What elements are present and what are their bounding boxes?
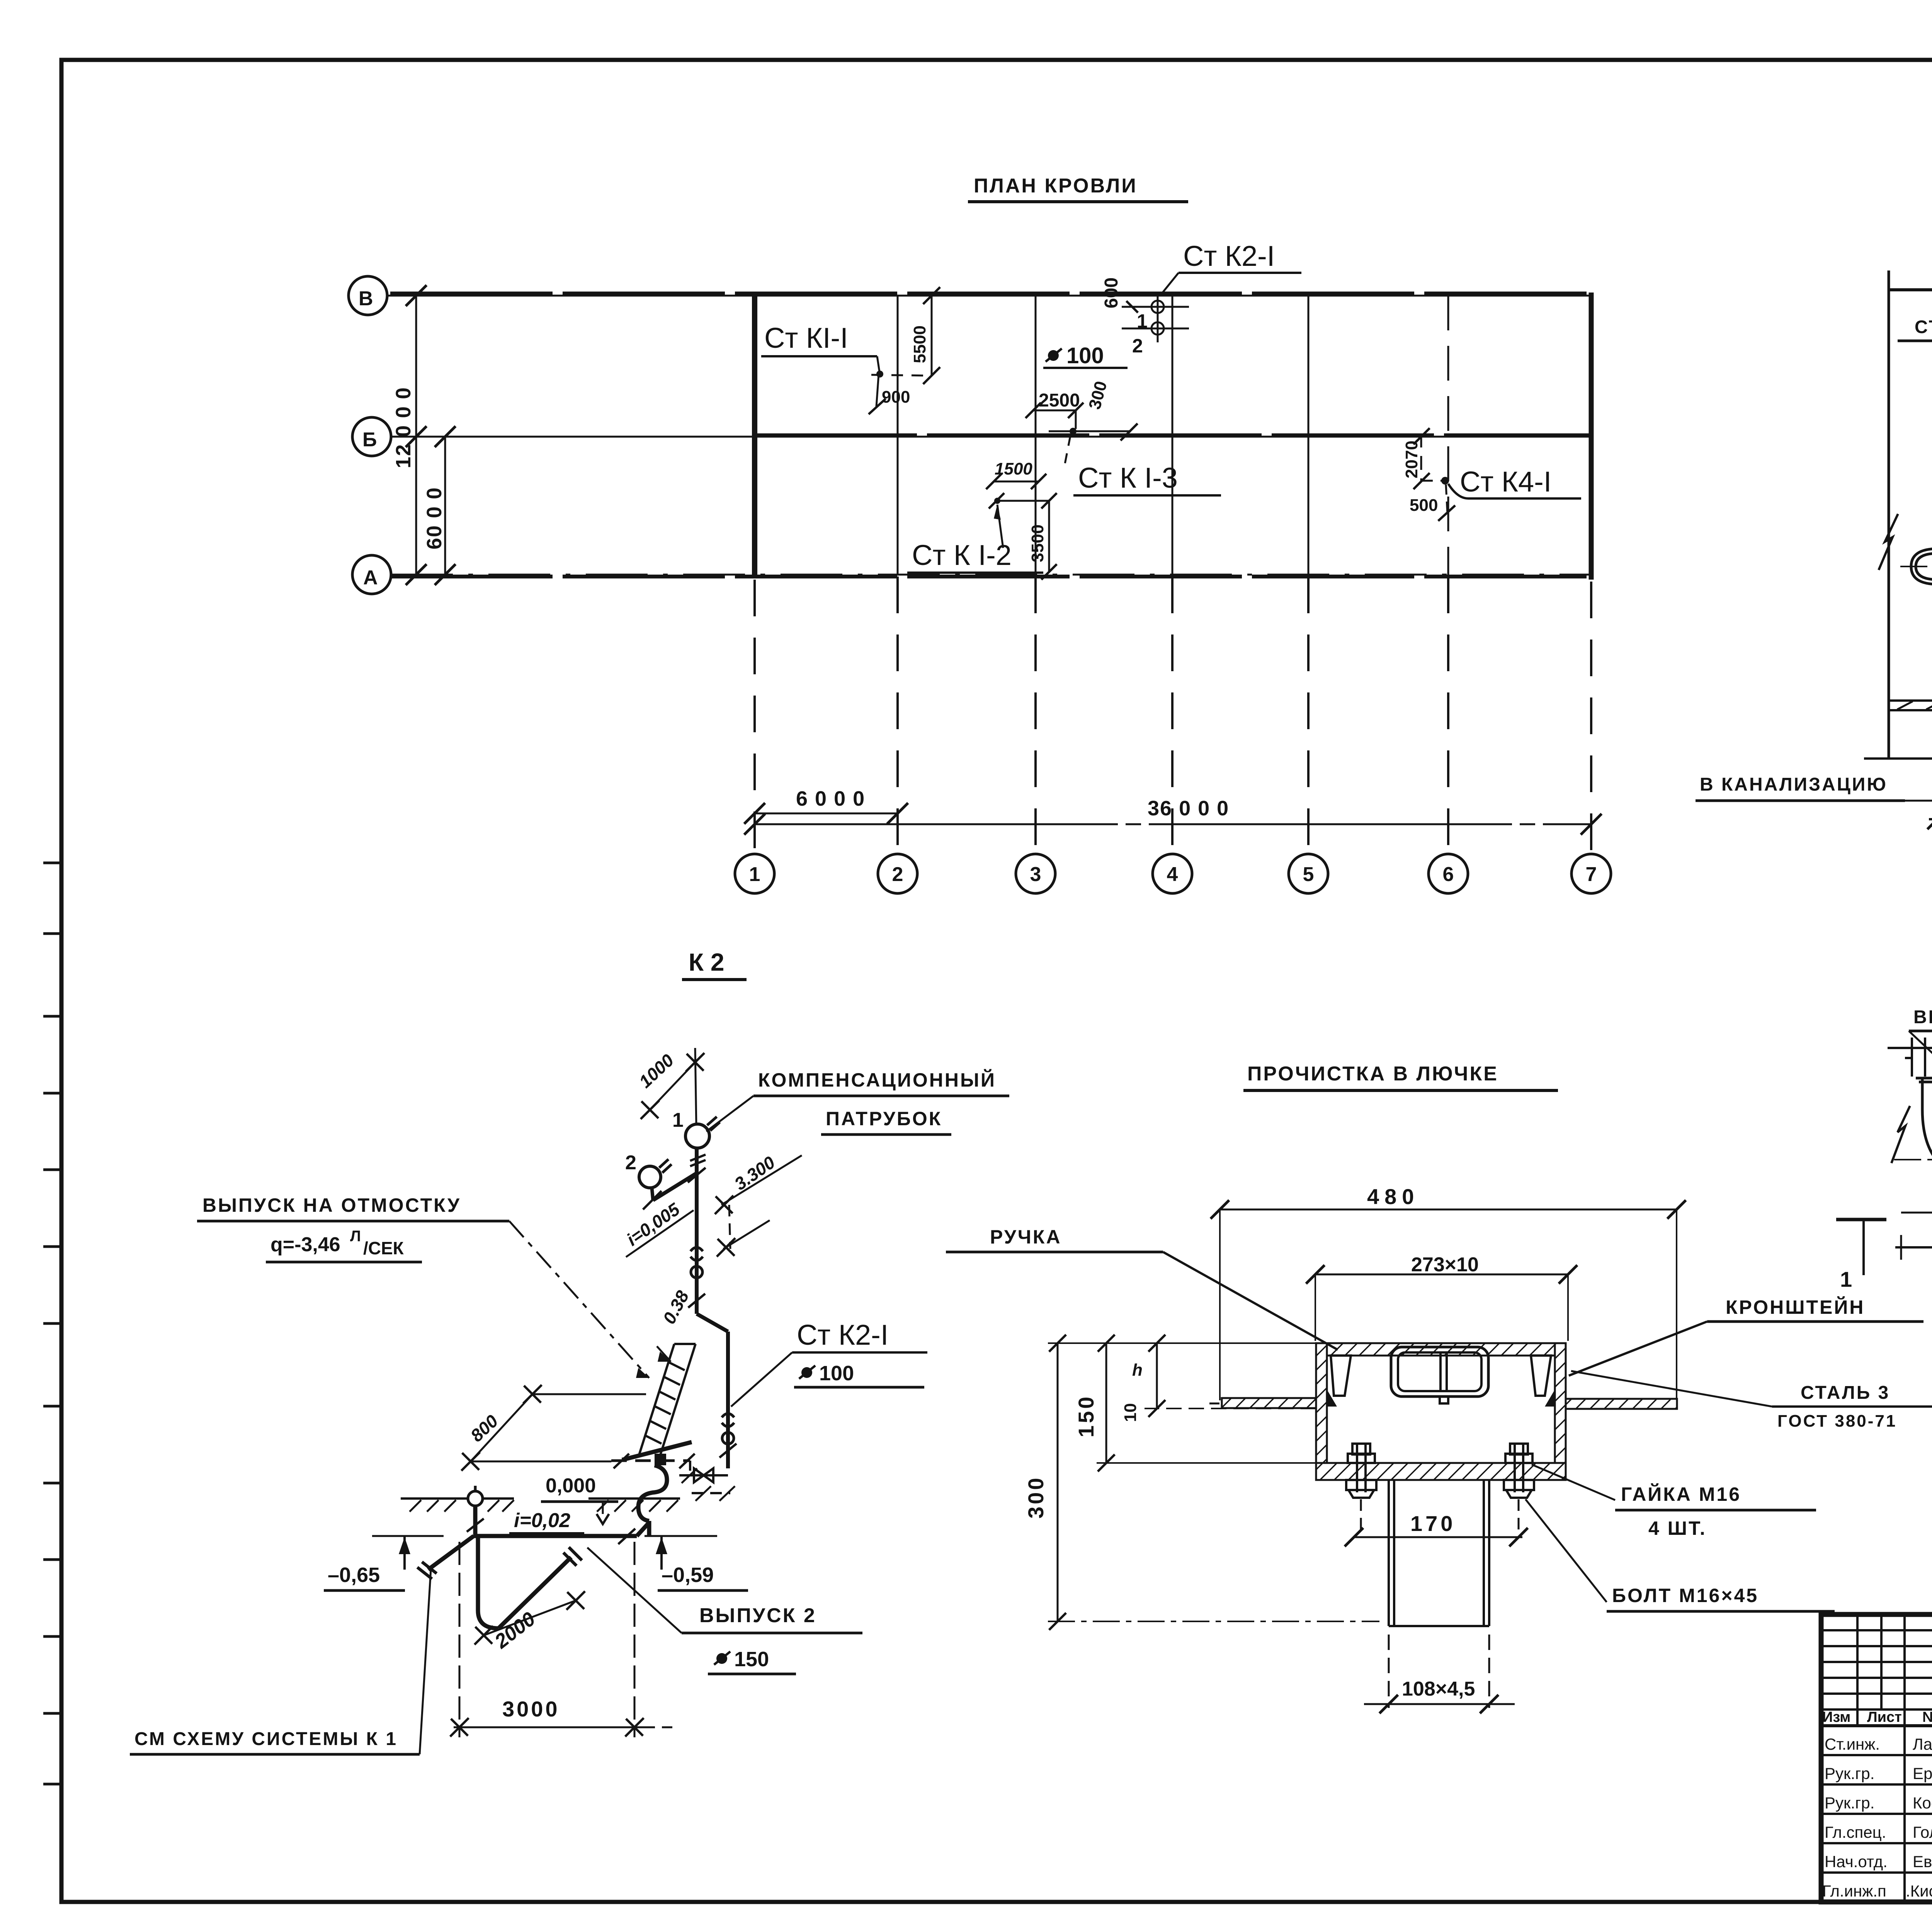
wall band iso: [639, 1344, 696, 1456]
vozdushnik circle 1: [685, 1124, 709, 1148]
svg-text:ВЫПУСК 2: ВЫПУСК 2: [699, 1604, 816, 1627]
svg-text:Ст К I-2: Ст К I-2: [912, 539, 1012, 571]
svg-text:Евтушенко: Евтушенко: [1913, 1852, 1932, 1871]
dim 12000 left: [415, 296, 417, 575]
svg-text:7: 7: [1586, 863, 1597, 886]
svg-text:300: 300: [1024, 1476, 1048, 1519]
TITLE-BLOCK: [1821, 1614, 1932, 1902]
ground line with hatches: [401, 1497, 680, 1500]
dim 6000 bottom cols1-2: [755, 813, 898, 815]
level -0.59: [645, 1535, 717, 1537]
svg-text:/СЕК: /СЕК: [363, 1238, 404, 1258]
pipe from wall down-left: [622, 1442, 692, 1460]
svg-text:№ докум.: № докум.: [1922, 1709, 1932, 1725]
svg-text:Ст К2-I: Ст К2-I: [797, 1319, 888, 1351]
svg-text:Ст К I-3: Ст К I-3: [1078, 462, 1178, 494]
CLEANOUT: [946, 1063, 1932, 1713]
wall stubs: [1905, 1038, 1932, 1077]
svg-text:Изм: Изм: [1822, 1709, 1850, 1725]
leader to wall: [509, 1221, 649, 1378]
svg-text:q=-3,46: q=-3,46: [270, 1233, 340, 1256]
section mark 1 left: [1836, 1218, 1886, 1221]
svg-text:ГОСТ 380-71: ГОСТ 380-71: [1777, 1412, 1897, 1431]
dashed run with square: [611, 1459, 690, 1462]
PLAN-VIEW: [1836, 905, 1932, 1291]
upper-left pipe run: [1911, 546, 1932, 589]
svg-text:36 0 0 0: 36 0 0 0: [1148, 797, 1229, 820]
svg-text:В КАНАЛИЗАЦИЮ: В КАНАЛИЗАЦИЮ: [1700, 774, 1888, 795]
svg-text:100: 100: [1066, 343, 1104, 368]
column line 3: [1035, 296, 1037, 575]
svg-text:Ст КI-I: Ст КI-I: [764, 322, 848, 354]
svg-text:–0,59: –0,59: [662, 1563, 714, 1587]
svg-text:150: 150: [734, 1648, 769, 1671]
wall right edge: [1589, 293, 1594, 580]
svg-text:2070: 2070: [1402, 441, 1421, 478]
svg-text:3: 3: [1030, 863, 1041, 886]
right bracket: [1531, 1356, 1551, 1396]
axis line B: [387, 295, 1594, 297]
svg-text:12 0 0 0: 12 0 0 0: [392, 387, 415, 468]
svg-text:600: 600: [1101, 277, 1122, 308]
branch to riser with valve: [689, 1461, 691, 1475]
svg-text:СМ СХЕМУ СИСТЕМЫ К 1: СМ СХЕМУ СИСТЕМЫ К 1: [134, 1729, 398, 1749]
header labels: [1822, 1709, 1932, 1725]
handle: [1391, 1347, 1488, 1403]
left bracket: [1331, 1356, 1351, 1396]
dim 5500: [931, 296, 933, 376]
top extension with X: [695, 1048, 696, 1125]
svg-text:108×4,5: 108×4,5: [1402, 1678, 1475, 1700]
upper riser: [695, 1148, 699, 1314]
svg-text:0,000: 0,000: [546, 1475, 596, 1497]
big elbow plan: [1916, 1078, 1932, 1183]
svg-text:Лист: Лист: [1867, 1709, 1902, 1725]
left dims h 10 150 300: [1048, 1342, 1316, 1344]
vertical below outfall: [473, 1506, 478, 1536]
svg-text:ПЛАН КРОВЛИ: ПЛАН КРОВЛИ: [974, 175, 1138, 197]
svg-text:3500: 3500: [1028, 524, 1047, 562]
h dim: [1156, 1343, 1158, 1408]
svg-text:2: 2: [625, 1152, 636, 1174]
svg-text:К 2: К 2: [689, 948, 724, 976]
riser point К1-3: [1070, 428, 1077, 435]
dim 1000: [650, 1062, 695, 1110]
dim line 2: [996, 500, 1049, 502]
lower riser: [726, 1332, 730, 1468]
elevation 3.300: [721, 1155, 802, 1205]
svg-text:100: 100: [819, 1362, 854, 1385]
svg-text:ПРОЧИСТКА В ЛЮЧКЕ: ПРОЧИСТКА В ЛЮЧКЕ: [1247, 1063, 1498, 1085]
dim 900: [876, 374, 879, 407]
svg-text:3000: 3000: [502, 1697, 560, 1721]
svg-text:Ермолаев: Ермолаев: [1913, 1764, 1932, 1783]
left wall: [1316, 1343, 1327, 1480]
svg-text:–0,65: –0,65: [328, 1563, 380, 1587]
svg-text:КРОНШТЕЙН: КРОНШТЕЙН: [1726, 1296, 1865, 1318]
column line 4: [1172, 296, 1173, 575]
right bolt: [1504, 1444, 1534, 1498]
SECTION-1-1: [1696, 155, 1932, 829]
svg-text:Ст.инж.: Ст.инж.: [1825, 1735, 1880, 1753]
left bolt: [1346, 1444, 1376, 1498]
left break: [1891, 1106, 1910, 1163]
svg-text:Л: Л: [350, 1228, 361, 1245]
svg-text:900: 900: [882, 388, 910, 407]
svg-text:Голец: Голец: [1913, 1823, 1932, 1841]
svg-text:1: 1: [1137, 310, 1148, 332]
dim 3000: [459, 1542, 461, 1737]
svg-text:6: 6: [1443, 863, 1454, 886]
column line 2: [897, 296, 899, 575]
axis circle А: [352, 555, 391, 594]
column axes below А: [755, 577, 1591, 853]
svg-text:h: h: [1132, 1361, 1143, 1379]
svg-text:Гл.спец.: Гл.спец.: [1825, 1823, 1886, 1841]
svg-text:5: 5: [1303, 863, 1314, 886]
svg-text:2: 2: [1132, 335, 1143, 357]
floor slab: [1889, 699, 1932, 702]
underground main i=0.02: [474, 1534, 637, 1538]
dim 800: [532, 1393, 646, 1395]
top plate hatched: [1316, 1343, 1566, 1356]
dim 36000 bottom: [755, 823, 1591, 825]
svg-text:.Киселева: .Киселева: [1906, 1882, 1932, 1900]
pipe from 2 to riser: [652, 1188, 653, 1200]
svg-text:i=0,02: i=0,02: [514, 1509, 570, 1532]
svg-text:Косминская: Косминская: [1913, 1794, 1932, 1812]
left signature table verticals: [1857, 1614, 1932, 1902]
ceiling line: [1889, 288, 1932, 291]
svg-text:Нач.отд.: Нач.отд.: [1825, 1852, 1888, 1871]
svg-text:КОМПЕНСАЦИОННЫЙ: КОМПЕНСАЦИОННЫЙ: [758, 1069, 996, 1091]
svg-text:10: 10: [1121, 1403, 1140, 1422]
left deck flange: [1222, 1398, 1316, 1408]
svg-text:РУЧКА: РУЧКА: [990, 1226, 1062, 1248]
dim line bottom: [1864, 757, 1932, 760]
svg-text:Рук.гр.: Рук.гр.: [1825, 1794, 1874, 1812]
svg-text:ВЫПУСК НА ОТМОСТКУ: ВЫПУСК НА ОТМОСТКУ: [1913, 1007, 1932, 1027]
svg-text:6 0 0 0: 6 0 0 0: [796, 787, 865, 810]
right deck flange: [1566, 1399, 1677, 1409]
svg-text:2500: 2500: [1039, 390, 1080, 411]
svg-text:1: 1: [749, 863, 760, 886]
upper boundary line: [1888, 1047, 1932, 1049]
svg-text:В: В: [359, 287, 373, 310]
column bubbles 1-7: [735, 854, 1611, 893]
vozdushnik circle 2: [639, 1166, 661, 1188]
svg-text:Б: Б: [362, 429, 377, 451]
svg-text:1: 1: [1840, 1267, 1852, 1291]
svg-text:БОЛТ М16×45: БОЛТ М16×45: [1612, 1585, 1759, 1606]
level -0.65: [372, 1535, 444, 1537]
column line 6: [1447, 296, 1449, 575]
svg-text:60 0 0: 60 0 0: [423, 487, 446, 549]
svg-text:170: 170: [1410, 1511, 1456, 1536]
bottom plate hatched: [1316, 1463, 1566, 1480]
svg-text:Рук.гр.: Рук.гр.: [1825, 1764, 1874, 1783]
svg-text:Ларионов: Ларионов: [1913, 1735, 1932, 1753]
pipe stub below: [1389, 1480, 1489, 1626]
axis line А: [391, 574, 1594, 576]
d32 line: [1901, 1212, 1932, 1214]
svg-text:2: 2: [892, 863, 903, 886]
ROOF-PLAN: [349, 175, 1611, 893]
dim 108x4.5: [1388, 1635, 1390, 1708]
svg-text:500: 500: [1410, 496, 1438, 515]
svg-text:Ст К4-I: Ст К4-I: [1460, 466, 1551, 498]
stack point К4-1: [1441, 477, 1449, 485]
axis circle Б: [352, 417, 391, 456]
K2-SCHEME: [130, 948, 1009, 1754]
lower boundary line: [1895, 1246, 1932, 1249]
jog 0.38: [697, 1314, 728, 1332]
branch vypusk2: [476, 1536, 480, 1611]
svg-text:1: 1: [672, 1109, 684, 1131]
svg-text:4: 4: [1167, 863, 1178, 886]
outfall diagonal: [428, 1536, 474, 1570]
right wall: [1555, 1343, 1566, 1480]
column line 5: [1308, 296, 1310, 575]
svg-text:СТОЯК ВОДОСТОЧНЫЙ: СТОЯК ВОДОСТОЧНЫЙ: [1915, 316, 1932, 337]
wall column 1: [752, 293, 757, 578]
svg-text:ПАТРУБОК: ПАТРУБОК: [826, 1108, 942, 1129]
dim 2000: [484, 1601, 576, 1635]
300 dim: [1057, 1343, 1059, 1621]
stack points 1,2: [1151, 301, 1164, 313]
svg-text:480: 480: [1367, 1184, 1419, 1209]
outfall circle: [468, 1491, 483, 1506]
S-bend: [638, 1465, 667, 1521]
leader to К1-2: [997, 505, 1003, 548]
svg-text:ГАЙКА М16: ГАЙКА М16: [1621, 1483, 1741, 1505]
150 dim: [1105, 1343, 1107, 1463]
svg-text:А: А: [363, 566, 378, 589]
coupling chevrons: [690, 1247, 703, 1251]
svg-text:Ст К2-I: Ст К2-I: [1183, 240, 1275, 272]
svg-text:Гл.инж.п: Гл.инж.п: [1822, 1882, 1886, 1900]
svg-text:5500: 5500: [910, 325, 929, 363]
left wall line: [1888, 270, 1890, 759]
svg-text:ВЫПУСК НА ОТМОСТКУ: ВЫПУСК НА ОТМОСТКУ: [202, 1194, 461, 1216]
axis circle B: [349, 276, 387, 315]
svg-text:4 ШТ.: 4 ШТ.: [1648, 1517, 1707, 1539]
left table horizontals: [1821, 1630, 1932, 1873]
svg-text:273×10: 273×10: [1411, 1254, 1479, 1276]
axis line Б: [391, 436, 1594, 438]
centerlines: [1894, 1159, 1932, 1160]
dim 6000 left: [444, 437, 446, 575]
svg-text:СТАЛЬ 3: СТАЛЬ 3: [1801, 1383, 1890, 1403]
svg-text:150: 150: [1074, 1395, 1098, 1437]
signature rows: [1822, 1735, 1932, 1900]
centerline upper pipe: [1900, 566, 1932, 567]
